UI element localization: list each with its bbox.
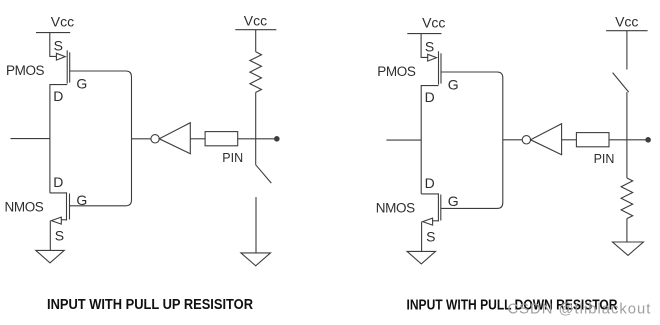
svg-text:S: S [426,229,435,245]
wire: Q2 source to ground [49,221,51,251]
wire: resistor PIN to pad node [609,139,646,141]
wire: Q4 source lead [433,220,439,222]
Vcc power rail (pull-down branch) [606,30,648,32]
switch SW1 blade (left) [256,165,272,183]
Vcc power rail (left CMOS) [36,32,70,34]
wire: input stub (left) [11,138,50,140]
switch SW2 blade (right) [613,73,629,93]
wire: gate node to inverter U2 input [503,139,522,141]
svg-text:D: D [53,174,63,190]
transistor Q3 PMOS source arrow [428,54,437,61]
wire: SW1 to ground [255,197,257,253]
transistor Q2 NMOS channel bar [66,192,68,220]
transistor Q4 NMOS channel bar [437,193,439,221]
svg-text:D: D [425,89,435,105]
wire: gate loop joining Q3 and Q4 gates [441,72,503,208]
ground symbol (under R2) [613,242,644,255]
svg-text:CSDN @tliblackout: CSDN @tliblackout [508,302,652,318]
svg-text:S: S [55,228,64,244]
wire: PMOS Q3 source to Vcc rail [421,34,428,58]
svg-text:G: G [76,75,87,91]
inverter U2 bubble [522,136,530,144]
node: pad terminal dot (right) [645,137,651,143]
svg-text:Vcc: Vcc [244,12,267,28]
wire: U1 output to resistor PIN [190,138,205,140]
wire: input stub (right) [386,139,421,141]
transistor Q3 PMOS gate bar [440,53,442,83]
svg-text:INPUT WITH PULL UP RESISITOR: INPUT WITH PULL UP RESISITOR [47,296,253,313]
wire: SW2 to pad node and resistor R2 [626,92,628,178]
resistor R1 pull-up (zigzag) [250,52,262,93]
resistor PIN (box, right) [576,133,609,147]
wire: rail to switch SW2 [626,31,628,70]
wire: PMOS Q3 drain lead [421,86,438,194]
svg-text:S: S [54,38,63,54]
wire: Q4 source to ground [421,222,423,252]
Vcc power rail (right CMOS) [407,33,441,35]
resistor R2 pull-down (zigzag) [621,178,633,219]
transistor Q1 PMOS gate bar [69,52,71,82]
ground symbol (under Q2) [36,250,64,263]
svg-text:Vcc: Vcc [422,15,445,31]
inverter U2 triangle [531,124,562,155]
svg-text:S: S [425,39,434,55]
inverter U1 triangle [159,123,190,154]
transistor Q1 PMOS source arrow [56,53,65,60]
svg-text:PMOS: PMOS [377,64,416,79]
wire: gate node to inverter U1 input [132,138,151,140]
svg-text:G: G [76,192,87,208]
ground symbol (under Q4) [407,251,435,264]
wire: rail to pull-up resistor R1 [255,30,257,52]
transistor Q2 NMOS gate bar [69,194,71,220]
svg-text:NMOS: NMOS [376,201,415,216]
wire: Q2 source lead [61,219,66,221]
wire: R2 to ground [626,219,628,242]
transistor Q2 NMOS source arrow [51,217,61,224]
transistor Q2 NMOS drain lead [50,192,67,194]
svg-text:PMOS: PMOS [6,63,45,78]
svg-text:NMOS: NMOS [5,200,44,215]
svg-text:D: D [53,88,63,104]
inverter U1 bubble [151,135,159,143]
transistor Q4 NMOS source arrow [423,218,433,225]
transistor Q1 PMOS channel bar [66,50,68,83]
svg-text:Vcc: Vcc [51,14,74,30]
ground symbol (under SW1) [241,253,271,266]
transistor Q4 NMOS drain lead [421,193,438,195]
svg-text:PIN: PIN [222,151,243,165]
wire: resistor PIN to pad node [238,138,275,140]
wire: PMOS Q1 source to Vcc rail [50,33,57,57]
svg-text:G: G [448,76,459,92]
transistor Q3 PMOS channel bar [438,51,440,84]
svg-text:PIN: PIN [594,152,615,166]
svg-text:D: D [425,175,435,191]
resistor PIN (box, left) [205,132,238,146]
wire: R1 to pad node and switch SW1 [255,92,257,164]
wire: PMOS Q1 drain lead [50,85,67,193]
svg-text:Vcc: Vcc [615,13,638,29]
node: pad terminal dot (left) [274,136,280,142]
wire: U2 output to resistor PIN [562,139,577,141]
svg-text:G: G [448,193,459,209]
Vcc power rail (pull-up) [235,29,276,31]
wire: gate loop joining Q1 and Q2 gates (node IN) [70,71,132,206]
transistor Q4 NMOS gate bar [440,195,442,221]
